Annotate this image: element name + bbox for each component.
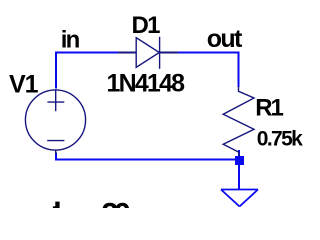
node junction square — [235, 156, 244, 165]
wire in net: V1 top to diode anode — [56, 52, 119, 54]
wire out net vertical to R1 — [238, 52, 240, 88]
diode D1 body — [118, 37, 178, 69]
resistor R1 body — [223, 86, 254, 156]
wire V1 top stub — [55, 52, 57, 89]
voltage source V1 body — [25, 89, 85, 154]
svg-text:out: out — [207, 25, 243, 53]
svg-text:0.75k: 0.75k — [257, 127, 303, 150]
svg-text:R1: R1 — [255, 94, 283, 121]
directive .tran text (clipped at bottom edge, only t ascender visible) — [53, 202, 60, 208]
svg-text:D1: D1 — [132, 12, 161, 39]
wire R1 bottom to ground — [238, 150, 240, 190]
wire bottom rail V1 to junction — [56, 153, 240, 160]
svg-text:V1: V1 — [9, 71, 39, 99]
wire out net: diode cathode to corner — [178, 52, 239, 54]
ground — [221, 190, 258, 207]
svg-text:1N4148: 1N4148 — [107, 70, 186, 98]
svg-text:in: in — [61, 26, 81, 53]
